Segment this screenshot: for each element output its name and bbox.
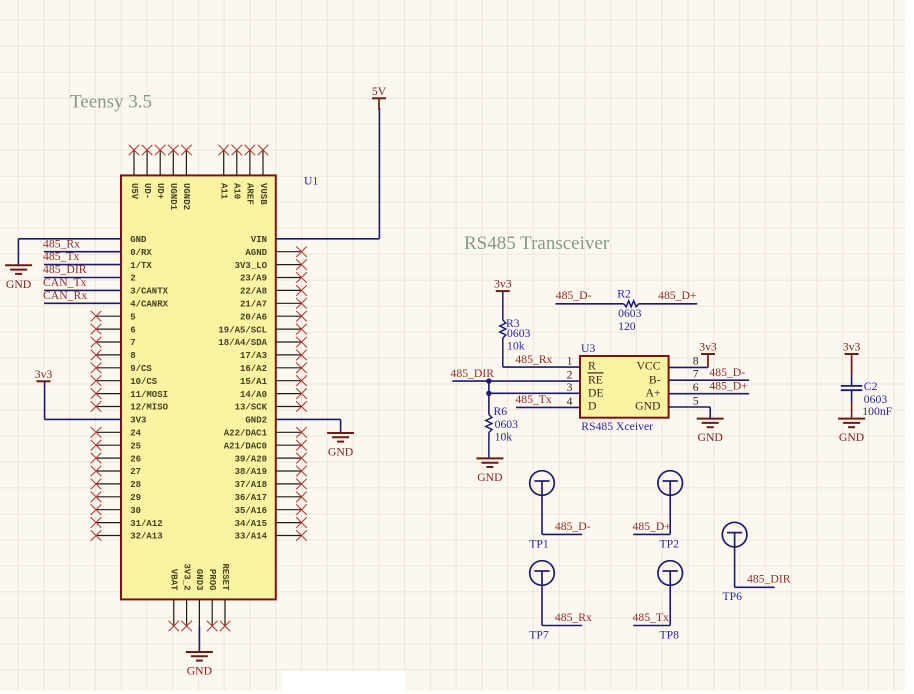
U3 pin number 6 xyxy=(693,381,699,394)
IC U1 Teensy 3.5 body xyxy=(121,175,276,599)
U1 pin 23/A9 (right, no-connect) xyxy=(240,272,307,284)
U1 pin 9/CS (left, no-connect) xyxy=(91,363,153,375)
svg-text:22/A8: 22/A8 xyxy=(240,287,267,297)
svg-text:PROG: PROG xyxy=(207,569,217,591)
wire U3 GND pin to ground xyxy=(669,407,711,419)
svg-text:3v3: 3v3 xyxy=(843,341,861,354)
svg-text:3: 3 xyxy=(567,381,573,394)
svg-text:6: 6 xyxy=(693,381,699,394)
U3 pin number 2 xyxy=(567,368,573,381)
svg-text:UD+: UD+ xyxy=(155,183,165,199)
U1 pin 25 (left, no-connect) xyxy=(91,440,141,452)
title "RS485 Transceiver" xyxy=(464,233,610,254)
U1 pin UD- (top, no-connect) xyxy=(142,145,153,200)
svg-text:A22/DAC1: A22/DAC1 xyxy=(224,429,268,439)
svg-text:485_D+: 485_D+ xyxy=(633,520,672,533)
U1 pin 4/CANRX (left) xyxy=(130,300,168,310)
resistor R3 xyxy=(500,291,506,367)
svg-text:DE: DE xyxy=(588,387,604,400)
U3 pin name RE (with overline) xyxy=(588,373,604,387)
svg-text:GND: GND xyxy=(328,446,353,459)
svg-text:10/CS: 10/CS xyxy=(130,377,158,387)
U3 pin name DE xyxy=(588,387,604,400)
svg-text:UGND2: UGND2 xyxy=(181,183,191,210)
svg-text:38/A19: 38/A19 xyxy=(235,467,267,477)
svg-text:39/A20: 39/A20 xyxy=(235,454,267,464)
wire net 485_Rx to U3 pin 1 xyxy=(503,366,580,368)
U1 pin 34/A15 (right, no-connect) xyxy=(235,517,307,529)
U1 pin A21/DAC0 (right, no-connect) xyxy=(224,440,307,452)
U1 pin 26 (left, no-connect) xyxy=(91,453,141,465)
test point TP8 xyxy=(658,561,683,586)
svg-text:33/A14: 33/A14 xyxy=(235,532,268,542)
wire 3v3 to U1 pin 3V3 xyxy=(45,381,121,419)
U1 pin 14/A0 (right, no-connect) xyxy=(240,388,307,400)
svg-text:5V: 5V xyxy=(372,85,387,98)
svg-text:26: 26 xyxy=(130,454,141,464)
wire U3 VCC to 3v3 xyxy=(669,366,708,368)
U1 pin 3/CANTX (left) xyxy=(130,287,168,297)
R6 value 0603 xyxy=(495,418,519,431)
svg-text:A21/DAC0: A21/DAC0 xyxy=(224,441,267,451)
wire net 485_D- to R2 xyxy=(555,303,623,305)
svg-text:C2: C2 xyxy=(864,380,878,393)
net label 485_D+ (TP2) xyxy=(633,520,672,533)
wire U1 pin GND2 to ground xyxy=(276,419,341,433)
svg-text:9/CS: 9/CS xyxy=(130,364,152,374)
U1 pin A22/DAC1 (right, no-connect) xyxy=(224,427,307,439)
U1 pin 17/A3 (right, no-connect) xyxy=(240,350,307,362)
svg-text:RE: RE xyxy=(588,373,603,386)
svg-text:VBAT: VBAT xyxy=(169,569,179,591)
test point TP2 xyxy=(658,471,683,496)
U3 pin name B- xyxy=(649,373,661,386)
U3 pin number 3 xyxy=(567,381,573,394)
svg-text:R6: R6 xyxy=(494,405,508,418)
svg-text:3V3: 3V3 xyxy=(130,416,146,426)
U3 pin name D xyxy=(588,400,596,413)
R3 designator xyxy=(506,317,520,330)
U1 pin PROG (bottom, no-connect) xyxy=(207,569,218,631)
svg-text:485_D-: 485_D- xyxy=(555,520,591,533)
ground GND (below R6) xyxy=(476,458,503,484)
U1 pin 20/A6 (right, no-connect) xyxy=(240,311,307,323)
U3 pin name VCC xyxy=(636,360,660,373)
svg-text:10k: 10k xyxy=(507,340,525,353)
svg-text:13/SCK: 13/SCK xyxy=(235,403,268,413)
svg-text:UGND1: UGND1 xyxy=(168,183,178,211)
U3 pin number 1 xyxy=(567,354,573,367)
U1 pin A10 (top, no-connect) xyxy=(232,145,243,200)
wire TP6 to net 485_DIR xyxy=(735,547,775,587)
svg-text:10k: 10k xyxy=(495,430,513,443)
net label 485_D+ (R2 right) xyxy=(658,289,697,302)
net label 485_DIR (U1 left) xyxy=(43,263,87,276)
op-amp/IC U3 RS485 transceiver body xyxy=(580,356,669,418)
U1 pin 29 (left, no-connect) xyxy=(91,492,141,504)
U1 pin 28 (left, no-connect) xyxy=(91,479,141,491)
capacitor C2 xyxy=(841,374,863,419)
ground GND (below C2) xyxy=(838,419,865,445)
R6 value 10k xyxy=(495,430,513,443)
U1 pin 38/A19 (right, no-connect) xyxy=(235,466,307,478)
power 3v3 (above C2) xyxy=(843,341,861,375)
U1 pin 35/A16 (right, no-connect) xyxy=(235,504,307,516)
svg-text:0603: 0603 xyxy=(864,393,888,406)
U3 pin number 7 xyxy=(693,368,699,381)
resistor R6 xyxy=(486,415,492,459)
net label 485_D- (TP1) xyxy=(555,520,591,533)
wire net 485_DIR to U3 pin 2 xyxy=(452,380,580,382)
svg-text:4/CANRX: 4/CANRX xyxy=(130,300,168,310)
svg-text:TP6: TP6 xyxy=(723,590,743,603)
svg-text:CAN_Tx: CAN_Tx xyxy=(43,276,87,289)
resistor R2 xyxy=(624,301,639,307)
power 3v3 (above U3 VCC) xyxy=(699,341,717,368)
test point TP1 xyxy=(530,471,555,496)
U1 pin 1/TX (left) xyxy=(130,261,152,271)
U3 pin number 4 xyxy=(567,395,573,408)
svg-text:19/A5/SCL: 19/A5/SCL xyxy=(218,325,267,335)
net label 485_DIR (U3) xyxy=(451,367,495,380)
svg-text:485_DIR: 485_DIR xyxy=(747,573,791,586)
svg-text:8: 8 xyxy=(693,355,699,368)
svg-text:TP1: TP1 xyxy=(529,537,549,550)
wire U3 A+ net 485_D+ xyxy=(669,393,750,395)
U1 pin 8 (left, no-connect) xyxy=(91,350,136,362)
svg-text:36/A17: 36/A17 xyxy=(235,493,267,503)
test point TP6 xyxy=(722,522,747,547)
U1 pin 13/SCK (right, no-connect) xyxy=(235,401,307,413)
svg-text:CAN_Rx: CAN_Rx xyxy=(43,289,87,302)
U1 pin RESET (bottom, no-connect) xyxy=(220,563,231,631)
svg-text:21/A7: 21/A7 xyxy=(240,300,267,310)
svg-text:A10: A10 xyxy=(232,183,242,199)
svg-text:485_Tx: 485_Tx xyxy=(43,250,80,263)
wire net CAN_Tx to U1 xyxy=(44,289,121,291)
svg-text:R2: R2 xyxy=(617,288,631,301)
wire net 485_Tx to U1 xyxy=(44,264,121,266)
svg-text:GND: GND xyxy=(477,471,502,484)
U1 pin 36/A17 (right, no-connect) xyxy=(235,492,307,504)
U1 pin 3V3_2 (bottom, no-connect) xyxy=(181,563,192,631)
svg-text:16/A2: 16/A2 xyxy=(240,364,267,374)
U1 pin UGND2 (top, no-connect) xyxy=(181,145,192,210)
U1 pin 19/A5/SCL (right, no-connect) xyxy=(218,324,306,336)
U1 pin A11 (top, no-connect) xyxy=(218,145,229,200)
svg-text:GND: GND xyxy=(130,235,147,245)
test point TP7 xyxy=(530,561,555,586)
U3 label RS485 Xceiver xyxy=(581,420,653,433)
power 3v3 (left of U1) xyxy=(35,368,53,382)
svg-text:U5V: U5V xyxy=(129,183,139,200)
svg-text:5: 5 xyxy=(693,395,699,408)
svg-text:18/A4/SDA: 18/A4/SDA xyxy=(218,338,267,348)
svg-text:TP7: TP7 xyxy=(529,628,549,641)
U3 pin number 8 xyxy=(693,355,699,368)
R6 designator xyxy=(494,405,508,418)
svg-text:8: 8 xyxy=(130,351,135,361)
C2 value 100nF xyxy=(862,405,892,418)
R2 designator xyxy=(617,288,631,301)
U1 pin GND2 (right) xyxy=(245,416,267,426)
svg-text:1: 1 xyxy=(567,354,573,367)
U1 pin 37/A18 (right, no-connect) xyxy=(235,479,307,491)
svg-text:4: 4 xyxy=(567,395,573,408)
svg-text:GND3: GND3 xyxy=(194,569,204,591)
ground GND (below U1) xyxy=(186,652,213,678)
svg-text:31/A12: 31/A12 xyxy=(130,519,162,529)
R2 value 0603 xyxy=(618,307,642,320)
svg-text:15/A1: 15/A1 xyxy=(240,377,268,387)
svg-text:0603: 0603 xyxy=(495,418,519,431)
U1 pin 11/MOSI (left, no-connect) xyxy=(91,388,168,400)
svg-text:485_D-: 485_D- xyxy=(709,366,745,379)
power 3v3 (above R3) xyxy=(494,278,512,292)
U1 pin 33/A14 (right, no-connect) xyxy=(235,530,307,542)
wire net CAN_Rx to U1 xyxy=(44,302,121,304)
svg-text:5: 5 xyxy=(130,312,135,322)
svg-text:GND: GND xyxy=(187,665,212,678)
svg-text:VUSB: VUSB xyxy=(258,183,268,205)
U3 pin name R xyxy=(588,360,596,373)
svg-text:20/A6: 20/A6 xyxy=(240,312,267,322)
svg-text:3/CANTX: 3/CANTX xyxy=(130,287,168,297)
wire R2 to net 485_D+ xyxy=(639,303,698,305)
ground GND (below U3) xyxy=(697,419,724,445)
wire GND to U1 pin GND xyxy=(18,239,121,265)
U1 pin 5 (left, no-connect) xyxy=(91,311,136,323)
TP7 designator xyxy=(529,628,549,641)
svg-text:VCC: VCC xyxy=(636,360,660,373)
svg-text:0/RX: 0/RX xyxy=(130,248,152,258)
svg-text:A+: A+ xyxy=(645,387,660,400)
svg-text:A11: A11 xyxy=(219,183,229,200)
svg-text:RESET: RESET xyxy=(220,563,230,591)
wire node to U3 pin 3 DE xyxy=(489,381,580,414)
ground GND (left of U1) xyxy=(5,265,32,291)
svg-text:17/A3: 17/A3 xyxy=(240,351,267,361)
svg-text:VIN: VIN xyxy=(251,235,267,245)
U1 pin VBAT (bottom, no-connect) xyxy=(169,569,180,631)
U1 pin 15/A1 (right, no-connect) xyxy=(240,375,307,387)
wire TP2 to net 485_D+ xyxy=(633,495,670,534)
svg-text:32/A13: 32/A13 xyxy=(130,532,162,542)
wire net 485_Rx to U1 xyxy=(44,251,121,253)
TP8 designator xyxy=(660,628,680,641)
svg-text:GND: GND xyxy=(635,400,660,413)
svg-text:6: 6 xyxy=(130,325,135,335)
svg-text:14/A0: 14/A0 xyxy=(240,390,267,400)
U1 pin 24 (left, no-connect) xyxy=(91,427,142,439)
svg-text:D: D xyxy=(588,400,596,413)
U1 pin 31/A12 (left, no-connect) xyxy=(91,517,163,529)
U1 pin VUSB (top, no-connect) xyxy=(258,145,269,206)
svg-text:28: 28 xyxy=(130,480,141,490)
svg-text:34/A15: 34/A15 xyxy=(235,519,267,529)
svg-text:0603: 0603 xyxy=(507,327,531,340)
R2 value 120 xyxy=(618,320,636,333)
net label CAN_Rx (U1 left) xyxy=(43,289,87,302)
U1 pin 0/RX (left) xyxy=(130,248,152,258)
svg-text:0603: 0603 xyxy=(618,307,642,320)
svg-text:3v3: 3v3 xyxy=(699,341,717,354)
svg-text:485_Rx: 485_Rx xyxy=(43,237,80,250)
svg-text:120: 120 xyxy=(618,320,636,333)
svg-text:25: 25 xyxy=(130,441,141,451)
svg-text:27: 27 xyxy=(130,467,141,477)
junction at DE node xyxy=(486,391,491,396)
U1 pin 12/MISO (left, no-connect) xyxy=(91,401,169,413)
U1 pin 22/A8 (right, no-connect) xyxy=(240,285,307,297)
U1 pin AREF (top, no-connect) xyxy=(245,145,256,205)
net label CAN_Tx (U1 left) xyxy=(43,276,87,289)
svg-text:GND: GND xyxy=(698,431,723,444)
svg-text:Teensy 3.5: Teensy 3.5 xyxy=(70,92,152,113)
svg-text:GND: GND xyxy=(839,431,864,444)
U3 pin number 5 xyxy=(693,395,699,408)
wire TP1 to net 485_D- xyxy=(542,495,582,534)
U1 pin AGND (right, no-connect) xyxy=(245,246,306,258)
svg-text:GND2: GND2 xyxy=(245,416,267,426)
U1 pin 6 (left, no-connect) xyxy=(91,324,136,336)
svg-text:7: 7 xyxy=(130,338,135,348)
C2 value 0603 xyxy=(864,393,888,406)
junction at 485_DIR / RE node xyxy=(486,378,491,383)
U1 pin UD+ (top, no-connect) xyxy=(155,145,166,200)
net label 485_Tx (U3) xyxy=(515,393,552,406)
U1 pin VIN (right) xyxy=(251,235,267,245)
svg-text:485_D-: 485_D- xyxy=(556,289,592,302)
U1 pin 27 (left, no-connect) xyxy=(91,466,141,478)
svg-text:485_DIR: 485_DIR xyxy=(451,367,495,380)
svg-text:3v3: 3v3 xyxy=(494,278,512,291)
svg-text:30: 30 xyxy=(130,506,141,516)
U1 pin 21/A7 (right, no-connect) xyxy=(240,298,307,310)
svg-text:485_Rx: 485_Rx xyxy=(515,353,552,366)
TP6 designator xyxy=(723,590,743,603)
svg-text:3V3_2: 3V3_2 xyxy=(181,563,191,590)
svg-text:AGND: AGND xyxy=(245,248,267,258)
U1 pin 16/A2 (right, no-connect) xyxy=(240,363,307,375)
svg-text:1/TX: 1/TX xyxy=(130,261,152,271)
svg-text:AREF: AREF xyxy=(245,183,255,205)
U3 designator xyxy=(581,342,595,355)
wire 5V to U1 pin VIN xyxy=(276,108,380,239)
wire U3 B- net 485_D- xyxy=(669,379,750,381)
wire U1 pin GND3 to ground xyxy=(198,626,200,652)
svg-text:7: 7 xyxy=(693,368,699,381)
R3 value 0603 xyxy=(507,327,531,340)
U1 pin 10/CS (left, no-connect) xyxy=(91,375,158,387)
U1 pin 39/A20 (right, no-connect) xyxy=(235,453,307,465)
U1 pin 3V3 (left) xyxy=(130,416,146,426)
net label 485_Tx (TP8) xyxy=(633,611,670,624)
svg-text:485_Tx: 485_Tx xyxy=(515,393,552,406)
svg-text:2: 2 xyxy=(567,368,573,381)
svg-text:R: R xyxy=(588,360,596,373)
U1 pin 3V3_LO (right, no-connect) xyxy=(235,259,307,271)
U1 pin 2 (left) xyxy=(130,274,135,284)
svg-text:23/A9: 23/A9 xyxy=(240,274,267,284)
svg-text:24: 24 xyxy=(130,429,141,439)
svg-text:U3: U3 xyxy=(581,342,595,355)
net label 485_Rx (U1 left) xyxy=(43,237,80,250)
svg-text:485_DIR: 485_DIR xyxy=(43,263,87,276)
svg-text:RS485 Xceiver: RS485 Xceiver xyxy=(581,420,653,433)
svg-text:100nF: 100nF xyxy=(862,405,892,418)
svg-text:485_Rx: 485_Rx xyxy=(555,611,592,624)
svg-text:11/MOSI: 11/MOSI xyxy=(130,390,168,400)
svg-text:29: 29 xyxy=(130,493,141,503)
svg-text:RS485 Transceiver: RS485 Transceiver xyxy=(464,233,610,254)
U1 pin 32/A13 (left, no-connect) xyxy=(91,530,163,542)
C2 designator xyxy=(864,380,878,393)
svg-text:GND: GND xyxy=(6,278,31,291)
U1 pin GND (left) xyxy=(130,235,147,245)
svg-text:TP2: TP2 xyxy=(660,537,680,550)
svg-text:3v3: 3v3 xyxy=(35,368,53,381)
U1 designator xyxy=(304,175,318,188)
svg-text:485_Tx: 485_Tx xyxy=(633,611,670,624)
U1 pin 7 (left, no-connect) xyxy=(91,337,136,349)
svg-text:UD-: UD- xyxy=(142,183,152,199)
net label 485_Rx (TP7) xyxy=(555,611,592,624)
U3 pin name A+ xyxy=(645,387,660,400)
net label 485_D- (R2 left) xyxy=(556,289,592,302)
net label 485_Rx (U3) xyxy=(515,353,552,366)
wire net 485_Tx to U3 pin 4 xyxy=(516,406,580,408)
U1 pin 30 (left, no-connect) xyxy=(91,504,141,516)
svg-text:37/A18: 37/A18 xyxy=(235,480,267,490)
wire TP8 to net 485_Tx xyxy=(633,585,670,625)
U1 pin U5V (top, no-connect) xyxy=(129,145,140,200)
svg-text:2: 2 xyxy=(130,274,135,284)
svg-text:12/MISO: 12/MISO xyxy=(130,403,168,413)
R3 value 10k xyxy=(507,340,525,353)
net label 485_D- (U3 right) xyxy=(709,366,745,379)
TP1 designator xyxy=(529,537,549,550)
U1 pin GND3 (bottom) xyxy=(194,569,204,626)
svg-text:3V3_LO: 3V3_LO xyxy=(235,261,268,271)
U1 pin 18/A4/SDA (right, no-connect) xyxy=(218,337,306,349)
U3 pin name GND xyxy=(635,400,660,413)
ground GND (right of U1) xyxy=(327,433,354,459)
svg-text:485_D+: 485_D+ xyxy=(658,289,697,302)
wire net 485_DIR to U1 xyxy=(44,277,121,279)
U1 pin UGND1 (top, no-connect) xyxy=(168,145,179,211)
title "Teensy 3.5" xyxy=(70,92,152,113)
svg-text:U1: U1 xyxy=(304,175,318,188)
svg-text:B-: B- xyxy=(649,373,661,386)
svg-text:35/A16: 35/A16 xyxy=(235,506,267,516)
TP2 designator xyxy=(660,537,680,550)
net label 485_DIR (TP6) xyxy=(747,573,791,586)
svg-text:485_D+: 485_D+ xyxy=(709,379,748,392)
wire TP7 to net 485_Rx xyxy=(542,585,582,625)
net label 485_D+ (U3 right) xyxy=(709,379,748,392)
power 5V xyxy=(372,85,387,110)
svg-text:TP8: TP8 xyxy=(660,628,680,641)
net label 485_Tx (U1 left) xyxy=(43,250,80,263)
